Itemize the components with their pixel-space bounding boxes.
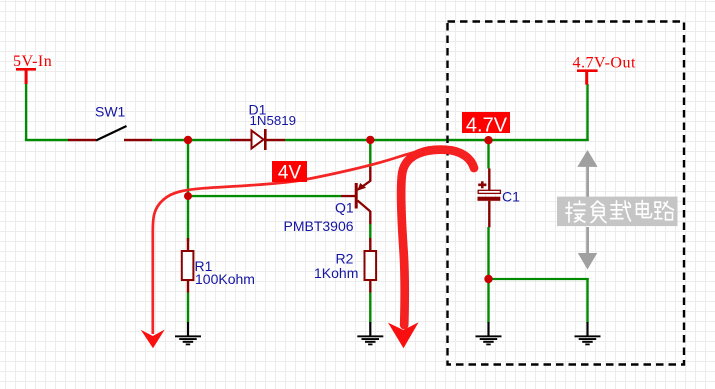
ground under R1 bbox=[175, 322, 201, 345]
wire cap junction to ground bbox=[487, 280, 489, 323]
char 路 bbox=[655, 202, 674, 220]
wire emitter vertical bbox=[369, 140, 371, 167]
ground under output column bbox=[575, 322, 601, 345]
annotation red sticker 4.7V bbox=[462, 112, 510, 137]
gray arrow up bbox=[577, 150, 597, 198]
wire diode to output corner bbox=[285, 139, 589, 141]
dashed load box bbox=[448, 22, 685, 365]
wire base rail horizontal bbox=[188, 195, 341, 197]
gray arrow down bbox=[578, 227, 597, 270]
wire out column bottom vertical bbox=[586, 278, 588, 323]
annotation thick red arrow to R2 ground bbox=[388, 150, 474, 349]
wire R2 to ground bbox=[369, 293, 371, 323]
char 载 bbox=[611, 201, 631, 221]
ground under C1 bbox=[476, 322, 502, 345]
capacitor C1 bbox=[478, 169, 521, 228]
wire input horizontal bbox=[25, 139, 69, 141]
svg-text:Q1: Q1 bbox=[335, 200, 354, 216]
resistor R2 1Kohm bbox=[314, 238, 376, 293]
wire bottom rail horizontal bbox=[488, 278, 589, 280]
wire cap to bottom junction bbox=[487, 227, 489, 280]
svg-text:PMBT3906: PMBT3906 bbox=[284, 218, 354, 234]
svg-text:C1: C1 bbox=[502, 189, 520, 205]
char 负 bbox=[591, 201, 606, 222]
wire cap vertical top bbox=[487, 140, 489, 169]
annotation thin red arrow to R1 ground bbox=[141, 147, 446, 348]
resistor R1 100Kohm bbox=[182, 238, 255, 293]
pin Q1 base bbox=[341, 195, 355, 197]
svg-text:100Kohm: 100Kohm bbox=[195, 271, 255, 287]
junction node E (bottom rail) bbox=[484, 275, 492, 283]
port 4.7V-Out bbox=[573, 55, 636, 85]
wire R1 to ground bbox=[187, 293, 189, 323]
junction node D (cap tap) bbox=[484, 136, 492, 144]
junction node C (emitter tap) bbox=[366, 136, 374, 144]
annotation red sticker 4V bbox=[272, 161, 307, 184]
wire collector to R2 bbox=[369, 224, 371, 241]
ground under R2 bbox=[357, 322, 383, 345]
switch SW1 bbox=[68, 104, 152, 142]
transistor Q1 bbox=[284, 167, 372, 234]
svg-text:1Kohm: 1Kohm bbox=[314, 265, 358, 281]
svg-text:1N5819: 1N5819 bbox=[250, 113, 297, 128]
wire switch to diode bbox=[152, 139, 230, 141]
diode D1 1N5819 bbox=[230, 102, 296, 151]
svg-text:4V: 4V bbox=[278, 163, 302, 184]
char 接 bbox=[566, 201, 585, 222]
char 电 bbox=[637, 201, 652, 218]
junction node B (base rail) bbox=[184, 192, 192, 200]
wire R1 column vertical top bbox=[187, 140, 189, 241]
svg-text:4.7V: 4.7V bbox=[466, 115, 508, 137]
svg-text:SW1: SW1 bbox=[95, 104, 126, 120]
wire output vertical bbox=[586, 84, 588, 141]
svg-text:5V-In: 5V-In bbox=[13, 53, 52, 70]
label 接负载电路 (load circuit) bbox=[557, 197, 678, 227]
svg-text:4.7V-Out: 4.7V-Out bbox=[573, 55, 636, 72]
junction node A (rail to R1) bbox=[184, 136, 192, 144]
wire input vertical bbox=[25, 84, 27, 141]
port 5V-In bbox=[13, 53, 52, 84]
